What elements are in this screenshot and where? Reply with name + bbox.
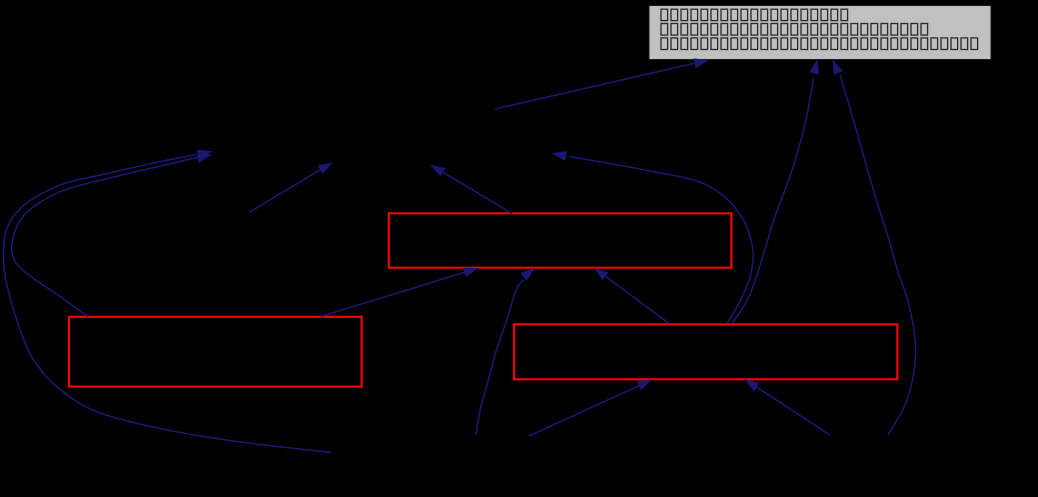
node: middle red box [389,213,732,267]
edge E7 [746,380,831,435]
edge E13 [4,150,332,452]
edge E3 [833,61,916,435]
tofu glyph row 1 (19 boxes) [661,9,848,20]
edge E12 [12,154,211,317]
edge E9 [321,268,477,316]
edge E8 [595,268,669,323]
node: right red box [514,324,897,379]
edge E2 [732,61,819,324]
edge E1 [495,59,708,109]
node: current-function box (grey) [649,6,991,60]
edge E4 [553,152,753,324]
edge E11 [249,163,332,213]
edge E5 [476,269,534,435]
tofu glyph row 3 (32 boxes) [661,38,978,50]
edge E6 [529,380,651,436]
tofu glyph row 2 (27 boxes) [661,24,928,36]
edge E10 [432,166,513,214]
node: left red box [69,317,362,387]
